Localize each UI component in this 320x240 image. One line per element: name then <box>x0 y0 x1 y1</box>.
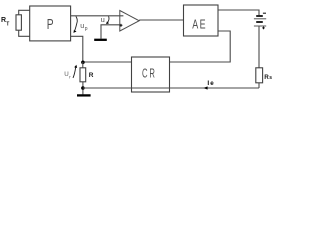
svg-text:U: U <box>64 71 68 78</box>
svg-text:s: s <box>269 75 272 81</box>
bottom wire node B to Rs <box>83 87 259 89</box>
label RT <box>1 17 9 27</box>
wire op-amp output to AE <box>139 19 183 21</box>
junction node B <box>81 86 85 90</box>
resistor R <box>80 68 86 82</box>
op-amp U1 <box>120 11 139 32</box>
label Rs <box>264 74 272 81</box>
junction node A <box>81 61 85 65</box>
wire RT bottom to P <box>19 30 30 36</box>
wire AE bottom output down to CR right <box>170 31 231 62</box>
wire node A to CR left <box>83 61 132 63</box>
wire P bottom output down to node A <box>71 36 83 62</box>
svg-text:CR: CR <box>142 67 157 82</box>
wire AE top output to battery <box>218 10 259 15</box>
battery minus label <box>263 12 266 14</box>
label uP <box>80 23 88 32</box>
wire op-amp + input to ground <box>101 25 120 39</box>
R top lead <box>82 62 84 68</box>
resistor RT <box>16 15 21 30</box>
svg-text:I: I <box>207 80 209 87</box>
svg-text:e: e <box>210 80 214 87</box>
ground (op-amp + input) <box>94 39 107 41</box>
wire RT top to P <box>19 10 30 15</box>
svg-text:u: u <box>101 15 105 24</box>
R bottom lead to ground <box>82 82 84 95</box>
svg-text:R: R <box>89 72 94 79</box>
voltage arrow u <box>108 16 109 22</box>
svg-text:AE: AE <box>192 18 207 32</box>
voltage arrow uP <box>75 16 77 30</box>
svg-text:P: P <box>47 15 54 33</box>
battery B1 <box>256 15 263 17</box>
ground (below R) <box>77 94 91 96</box>
svg-text:T: T <box>6 21 9 27</box>
op-amp plus sign <box>120 24 123 27</box>
block CR <box>132 57 170 92</box>
label Ur <box>64 71 71 80</box>
battery plus label <box>262 27 265 30</box>
current arrow Ie <box>203 86 207 89</box>
block P <box>30 6 71 41</box>
wire Rs bottom <box>258 83 260 88</box>
wire battery to Rs <box>258 27 260 68</box>
wire node u : P top output to op-amp <box>71 15 124 17</box>
label Ie <box>207 80 214 87</box>
svg-text:p: p <box>85 26 88 32</box>
resistor Rs <box>256 68 263 83</box>
voltage arrow Ur <box>73 68 76 78</box>
block AE <box>184 5 219 36</box>
svg-text:u: u <box>80 23 84 30</box>
